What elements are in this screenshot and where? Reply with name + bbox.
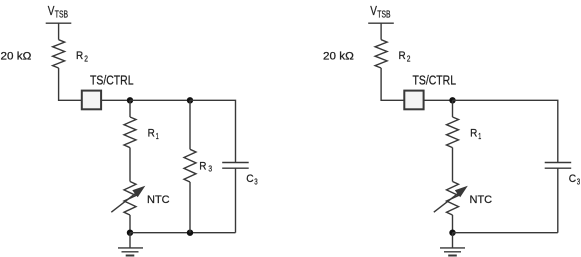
wire R3 to bottom rail (left) (189, 182, 191, 233)
svg-text:1: 1 (478, 132, 481, 141)
capacitor C3 (left) (222, 163, 249, 169)
node A junction (right) (449, 97, 455, 103)
svg-text:2: 2 (84, 54, 88, 63)
wire NTC to ground node (left) (129, 215, 131, 233)
label C3 (right) (569, 173, 580, 186)
svg-text:1: 1 (156, 132, 159, 141)
label R3 (left) (199, 161, 212, 174)
svg-text:R: R (76, 50, 83, 62)
label R2 (right) (399, 50, 411, 63)
svg-text:R: R (470, 128, 477, 140)
svg-text:R: R (399, 50, 406, 62)
svg-text:3: 3 (254, 177, 257, 186)
wire node B to C3 top (left) (190, 100, 236, 162)
svg-text:2: 2 (407, 54, 411, 63)
resistor R1 (left) (124, 117, 136, 148)
wire R1 to NTC (left) (129, 148, 131, 182)
wire NTC to ground node (right) (452, 215, 454, 233)
svg-text:20 kΩ: 20 kΩ (1, 51, 32, 63)
pin TS/CTRL (left) (82, 91, 101, 110)
svg-text:3: 3 (208, 165, 212, 174)
resistor R3 (left) (184, 149, 196, 182)
svg-text:NTC: NTC (470, 194, 493, 206)
ground symbol (right) (440, 233, 465, 256)
pin TS/CTRL (right) (404, 91, 423, 110)
wire C3 bottom lead (right) (557, 168, 559, 233)
bottom node B junction (left) (187, 230, 193, 236)
label C3 (left) (246, 173, 257, 186)
svg-text:C: C (569, 173, 576, 185)
bottom wire to C3 (right) (453, 232, 558, 234)
wire R1 to NTC (right) (452, 148, 454, 182)
wire pin to node A (right) (424, 99, 453, 101)
wire pin to node A (left) (101, 99, 130, 101)
power rail V_TSB (left) (46, 22, 72, 24)
svg-text:C: C (246, 173, 253, 185)
label R2 (left) (76, 50, 88, 63)
bottom ground node junction (left) (127, 230, 133, 236)
wire R2 to TS/CTRL pin (right) (381, 68, 404, 100)
ground symbol (left) (118, 233, 143, 256)
svg-text:TS/CTRL: TS/CTRL (413, 74, 457, 88)
wire node A to C3 top (right) (453, 100, 558, 162)
resistor R2 (left) (53, 40, 65, 68)
thermistor NTC (left) (111, 182, 145, 216)
resistor R1 (right) (447, 117, 459, 148)
wire node A to node B (left) (130, 99, 190, 101)
capacitor C3 (right) (545, 163, 572, 169)
label R1 (right) (470, 128, 481, 141)
svg-text:R: R (199, 161, 206, 173)
wire R2 to TS/CTRL pin (left) (59, 68, 82, 100)
wire node A to R1 (right) (452, 100, 454, 117)
label R1 (left) (148, 128, 159, 141)
resistor R2 (right) (375, 40, 387, 68)
wire node A to R1 (left) (129, 100, 131, 117)
svg-text:TSB: TSB (377, 9, 390, 20)
svg-text:R: R (148, 128, 155, 140)
node B junction (left) (187, 97, 193, 103)
wire C3 bottom lead (left) (235, 168, 237, 233)
power rail V_TSB (right) (368, 22, 394, 24)
svg-text:TS/CTRL: TS/CTRL (90, 74, 134, 88)
svg-text:20 kΩ: 20 kΩ (323, 51, 354, 63)
bottom wire to R3 and C3 (left) (130, 232, 236, 234)
svg-text:3: 3 (577, 177, 580, 186)
wire rail to R2 (left) (58, 23, 60, 40)
wire node B down to R3 (left) (189, 100, 191, 149)
svg-text:NTC: NTC (147, 194, 170, 206)
wire rail to R2 (right) (380, 23, 382, 40)
node A junction (left) (127, 97, 133, 103)
bottom ground node junction (right) (449, 230, 455, 236)
svg-text:TSB: TSB (55, 9, 68, 20)
net label V_TSB (right) (370, 4, 390, 20)
net label V_TSB (left) (48, 4, 68, 20)
thermistor NTC (right) (434, 182, 468, 216)
